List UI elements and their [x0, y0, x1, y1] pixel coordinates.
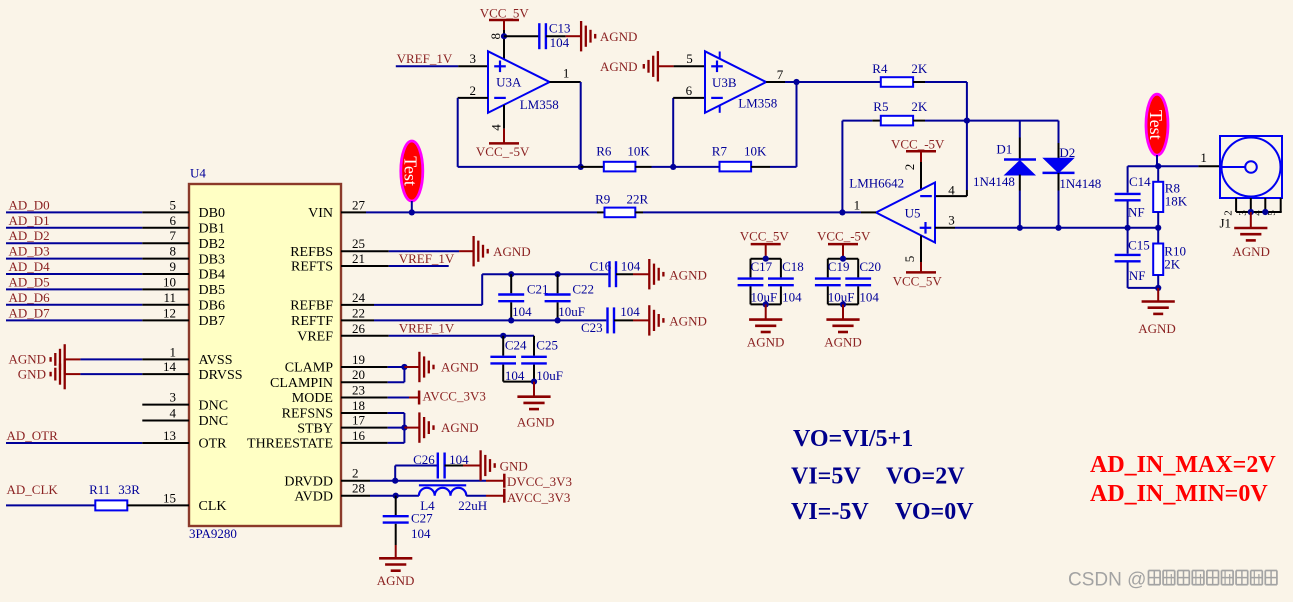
svg-text:C27: C27 — [411, 511, 433, 526]
capacitors C17 C18 decoupling VCC_5V — [738, 229, 804, 350]
svg-text:104: 104 — [782, 289, 802, 304]
svg-text:REFTF: REFTF — [291, 314, 333, 329]
svg-text:1: 1 — [1200, 150, 1207, 165]
svg-text:3: 3 — [1237, 210, 1249, 216]
svg-text:R6: R6 — [596, 143, 612, 158]
wire AD_D2 to pin 7 — [6, 242, 189, 244]
svg-text:AGND: AGND — [1138, 321, 1176, 336]
wire stub pin 3 DNC — [142, 404, 189, 406]
svg-text:10uF: 10uF — [558, 304, 585, 319]
IC U4 part number 3PA9280 — [189, 526, 237, 541]
svg-text:STBY: STBY — [297, 421, 333, 436]
wire C15 top stub — [1127, 228, 1129, 254]
wire pin 28 AVDD — [341, 495, 419, 497]
svg-text:3: 3 — [170, 390, 177, 405]
ground AGND below C27 — [377, 558, 415, 588]
wire C14 top stub — [1127, 166, 1129, 193]
svg-text:7: 7 — [170, 228, 177, 243]
node R10/C15 bottom junction — [1155, 285, 1161, 291]
svg-text:DB2: DB2 — [199, 237, 225, 252]
svg-text:104: 104 — [620, 304, 640, 319]
svg-text:33R: 33R — [118, 482, 140, 497]
svg-text:R7: R7 — [712, 143, 728, 158]
svg-text:AVCC_3V3: AVCC_3V3 — [507, 490, 570, 505]
wire U3A output — [550, 82, 581, 167]
IC U4 designator — [190, 166, 206, 181]
ground AGND at C13 — [581, 21, 637, 51]
capacitor C15 NF — [1115, 238, 1150, 283]
wire AD_OTR to pin 13 — [6, 442, 189, 444]
svg-text:AD_D2: AD_D2 — [9, 228, 50, 243]
wire U3A feedback loop — [458, 98, 581, 167]
node C24 top junction — [500, 333, 506, 339]
svg-text:AGND: AGND — [747, 334, 785, 349]
power AVCC_3V3 at pin 23 — [419, 389, 486, 405]
net label AD_D7 — [9, 305, 51, 320]
node R6/R7 junction — [670, 164, 676, 170]
svg-text:1: 1 — [170, 344, 177, 359]
net label AD_D3 — [9, 244, 50, 259]
svg-text:AD_CLK: AD_CLK — [7, 482, 59, 497]
wire AD_D1 to pin 6 — [6, 227, 189, 229]
svg-text:5: 5 — [686, 51, 693, 66]
svg-text:11: 11 — [163, 290, 176, 305]
node pin28/C27 junction — [393, 493, 399, 499]
node R4/R5/diode-rail junction — [964, 118, 970, 124]
svg-text:C19: C19 — [828, 259, 850, 274]
svg-text:1N4148: 1N4148 — [1059, 176, 1101, 191]
op-amp U3B LM358 — [705, 51, 777, 113]
svg-text:U5: U5 — [905, 205, 921, 220]
pin number 7 — [777, 67, 784, 82]
svg-text:8: 8 — [170, 244, 177, 259]
wire C23 to AGND — [614, 319, 649, 321]
svg-text:DB1: DB1 — [199, 222, 225, 237]
wire pins 18 17 16 REFSNS STBY THREESTATE — [341, 413, 404, 443]
svg-text:6: 6 — [686, 83, 693, 98]
svg-text:10uF: 10uF — [751, 289, 778, 304]
net label VREF_1V at U3A pin 3 — [397, 51, 453, 66]
op-amp U5 LMH6642 — [849, 175, 935, 242]
wire AD_D7 to pin 12 — [6, 319, 189, 321]
svg-text:17: 17 — [352, 413, 366, 428]
wire R11 to pin 15 CLK — [127, 504, 189, 506]
wire pin 22 REFTF rail — [341, 319, 606, 321]
svg-text:14: 14 — [163, 359, 177, 374]
svg-text:DB3: DB3 — [199, 252, 225, 267]
svg-text:VO=VI/5+1: VO=VI/5+1 — [793, 426, 913, 452]
svg-text:C24: C24 — [505, 337, 527, 352]
svg-text:DNC: DNC — [199, 414, 229, 429]
svg-text:7: 7 — [777, 67, 784, 82]
node pin2/C26 junction — [392, 478, 398, 484]
wire C13 to AGND — [546, 35, 581, 37]
node U3A feedback junction — [578, 164, 584, 170]
wire VCC_5V to U3A pin 8 — [503, 30, 505, 60]
node C22 bottom junction — [555, 317, 561, 323]
svg-text:3: 3 — [948, 213, 955, 228]
capacitor C25 10uF — [521, 336, 563, 383]
svg-text:26: 26 — [352, 321, 366, 336]
node D2 bottom junction — [1055, 225, 1061, 231]
node C14 bottom junction — [1125, 225, 1131, 231]
svg-text:AD_D7: AD_D7 — [9, 305, 51, 320]
svg-text:DRVDD: DRVDD — [284, 474, 333, 489]
node R8 bottom junction — [1155, 225, 1161, 231]
pin number 3 of U5 — [948, 213, 955, 228]
note AD_IN_MIN — [1090, 481, 1268, 507]
resistor R4 2K — [872, 61, 928, 87]
node testpoint junction on VIN — [409, 209, 415, 215]
wire pin 23 MODE to AVCC_3V3 — [341, 397, 419, 399]
node C21 top junction — [508, 271, 514, 277]
svg-text:2: 2 — [902, 164, 917, 171]
svg-text:R4: R4 — [872, 61, 888, 76]
svg-text:AGND: AGND — [824, 334, 862, 349]
wire to AGND at pins 17/16 — [404, 427, 419, 429]
svg-text:8: 8 — [488, 33, 503, 40]
node C25 bottom junction — [531, 379, 537, 385]
svg-text:C20: C20 — [859, 259, 881, 274]
power VCC_-5V above U5 — [891, 137, 945, 163]
wire AD_D6 to pin 11 — [6, 304, 189, 306]
svg-text:25: 25 — [352, 236, 365, 251]
wire AGND to pin 1 — [65, 358, 189, 360]
svg-text:VO=0V: VO=0V — [895, 499, 974, 525]
capacitor C21 104 — [498, 274, 548, 320]
node pins 19/20 junction — [401, 364, 407, 370]
svg-text:1: 1 — [563, 66, 570, 81]
svg-text:21: 21 — [352, 251, 365, 266]
svg-text:R9: R9 — [595, 192, 610, 207]
svg-text:DNC: DNC — [199, 398, 229, 413]
svg-text:C14: C14 — [1129, 174, 1151, 189]
net label VREF_1V at pin 21 — [399, 251, 455, 266]
svg-text:DRVSS: DRVSS — [199, 368, 243, 383]
node VCC/C13 junction — [501, 33, 507, 39]
wire VREF_1V to pin 3 — [396, 65, 488, 67]
svg-text:VREF_1V: VREF_1V — [397, 51, 453, 66]
svg-text:DVCC_3V3: DVCC_3V3 — [507, 474, 572, 489]
wire pin 26 VREF — [341, 335, 534, 337]
svg-text:2K: 2K — [911, 99, 928, 114]
node U3B output junction — [793, 79, 799, 85]
svg-text:23: 23 — [352, 383, 365, 398]
wire U3A inverting input — [458, 97, 488, 99]
svg-text:NF: NF — [1129, 268, 1146, 283]
wire C27 to AGND — [395, 524, 397, 558]
ground AGND at C16 — [649, 259, 707, 289]
wire C14 bottom stub — [1127, 202, 1129, 228]
svg-text:CSDN @: CSDN @ — [1068, 570, 1146, 591]
svg-text:16: 16 — [352, 428, 366, 443]
node C22 top junction — [555, 271, 561, 277]
wire pin 25 REFBS to AGND — [341, 250, 474, 252]
wire junction to C13 — [504, 35, 539, 37]
svg-text:VCC_-5V: VCC_-5V — [476, 144, 530, 159]
wire D2 bottom stub — [1058, 173, 1060, 228]
pin number 8 rotated — [488, 33, 503, 40]
svg-text:104: 104 — [621, 259, 641, 274]
ground AGND below J1 — [1232, 212, 1270, 259]
svg-text:AGND: AGND — [600, 29, 638, 44]
svg-text:VI=-5V: VI=-5V — [791, 499, 869, 525]
svg-text:15: 15 — [163, 490, 176, 505]
wire U3B output — [766, 81, 881, 83]
pin number 1 of J1 — [1200, 150, 1207, 165]
capacitor C14 NF — [1115, 174, 1152, 220]
node U5 output junction — [839, 209, 845, 215]
svg-text:3: 3 — [470, 51, 477, 66]
svg-text:REFBS: REFBS — [290, 245, 333, 260]
svg-text:C23: C23 — [581, 320, 603, 335]
svg-text:LM358: LM358 — [738, 96, 777, 111]
net label AD_D2 — [9, 228, 50, 243]
svg-text:3PA9280: 3PA9280 — [189, 526, 237, 541]
svg-text:104: 104 — [859, 289, 879, 304]
svg-text:Test: Test — [1146, 110, 1166, 140]
svg-text:22R: 22R — [627, 192, 649, 207]
wire pin 21 REFTS — [341, 265, 449, 267]
svg-text:VREF_1V: VREF_1V — [399, 321, 455, 336]
wire node up to U3B pin 6 — [673, 98, 705, 167]
wire C16 to AGND — [616, 273, 649, 275]
svg-text:VCC_-5V: VCC_-5V — [817, 229, 871, 244]
wire AD_D4 to pin 9 — [6, 273, 189, 275]
svg-text:2: 2 — [470, 83, 477, 98]
svg-text:VREF_1V: VREF_1V — [399, 251, 455, 266]
wire L4 to AVCC_3V3 — [466, 495, 504, 497]
wire C15 bottom stub — [1128, 263, 1159, 288]
svg-text:22uH: 22uH — [458, 498, 487, 513]
power DVCC_3V3 at pin 2 — [504, 474, 572, 490]
svg-text:AGND: AGND — [377, 573, 415, 588]
svg-text:4: 4 — [948, 183, 955, 198]
svg-text:Test: Test — [401, 156, 421, 186]
pin number 5 rotated — [902, 256, 917, 263]
net label AD_OTR — [7, 428, 59, 443]
wire VCC_-5V to U5 pin 2 — [920, 162, 922, 191]
svg-text:10uF: 10uF — [828, 289, 855, 304]
svg-text:OTR: OTR — [199, 437, 228, 452]
wire stub pin 4 DNC — [142, 420, 189, 422]
svg-text:C25: C25 — [536, 337, 558, 352]
wire pin 2 DRVDD — [341, 480, 504, 482]
svg-text:GND: GND — [500, 459, 528, 474]
svg-text:D2: D2 — [1059, 145, 1075, 160]
svg-text:12: 12 — [163, 305, 176, 320]
svg-text:U4: U4 — [190, 166, 206, 181]
wire R5 left leg — [842, 121, 880, 213]
testpoint Test on VIN — [401, 141, 423, 212]
svg-text:AD_IN_MIN=0V: AD_IN_MIN=0V — [1090, 481, 1268, 507]
wire D1 top stub — [1019, 121, 1021, 160]
wire C27 branch down — [395, 496, 397, 515]
svg-text:104: 104 — [512, 304, 532, 319]
svg-text:REFBF: REFBF — [290, 299, 333, 314]
wire R10 top stub — [1157, 228, 1159, 244]
svg-text:4: 4 — [489, 124, 504, 131]
net label AD_D4 — [9, 259, 51, 274]
capacitor C13 104 — [539, 21, 570, 50]
wire AGND to pin 5 — [658, 65, 705, 67]
pin number 1 of U3A — [563, 66, 570, 81]
svg-text:C17: C17 — [751, 259, 773, 274]
svg-text:VIN: VIN — [308, 206, 333, 221]
capacitor C27 104 — [383, 511, 433, 541]
wire GND to pin 14 — [65, 373, 189, 375]
capacitor C24 104 — [490, 336, 527, 383]
net label AD_D5 — [9, 274, 50, 289]
wire C26 branch up — [395, 466, 438, 481]
IC U4 3PA9280 body — [189, 184, 341, 526]
wire to AGND at pins 19/20 — [404, 366, 419, 368]
svg-text:REFTS: REFTS — [291, 260, 333, 275]
svg-text:AGND: AGND — [441, 420, 479, 435]
wire U5 pin 4 — [935, 195, 967, 197]
svg-text:6: 6 — [170, 213, 177, 228]
note formula VI=5V — [791, 464, 965, 490]
svg-text:C26: C26 — [413, 452, 435, 467]
resistor R5 2K — [873, 99, 928, 125]
capacitors C19 C20 decoupling VCC_-5V — [815, 229, 881, 350]
power VCC_-5V below U3A — [476, 143, 530, 159]
svg-text:C22: C22 — [572, 281, 594, 296]
svg-text:18K: 18K — [1165, 194, 1188, 209]
J1 pin numbers 2 3 4 5 rotated — [1223, 210, 1279, 216]
svg-text:VCC_5V: VCC_5V — [480, 6, 530, 21]
note formula VO — [793, 426, 913, 452]
svg-text:104: 104 — [411, 526, 431, 541]
node C21 bottom junction — [508, 317, 514, 323]
diode D1 1N4148 — [973, 142, 1036, 189]
wire AD_CLK to R11 — [6, 504, 95, 506]
node D1 bottom junction — [1017, 225, 1023, 231]
note formula VI=-5V — [791, 499, 974, 525]
svg-text:LM358: LM358 — [520, 97, 559, 112]
op-amp U3A LM358 — [488, 51, 559, 113]
net label AD_CLK — [7, 482, 59, 497]
ground AGND at pins 17/16 — [419, 412, 478, 442]
svg-text:REFSNS: REFSNS — [282, 407, 333, 422]
svg-text:DB6: DB6 — [199, 299, 225, 314]
ground AGND at pin 25 — [474, 236, 531, 266]
node pins 17/16 junction — [401, 425, 407, 431]
pin number 1 of U5 — [854, 198, 861, 213]
svg-text:9: 9 — [170, 259, 177, 274]
svg-text:AGND: AGND — [441, 360, 479, 375]
svg-text:27: 27 — [352, 197, 366, 212]
resistor R7 10K — [712, 143, 767, 171]
svg-text:10K: 10K — [627, 143, 650, 158]
ground AGND at U3B pin 5 — [600, 51, 658, 81]
svg-text:AVDD: AVDD — [294, 489, 333, 504]
pin number 2 — [470, 83, 477, 98]
J1 designator — [1220, 216, 1232, 231]
connector J1 jack — [1220, 136, 1282, 198]
net label AD_D6 — [9, 290, 51, 305]
wire D2 top stub — [1058, 121, 1060, 159]
svg-text:10K: 10K — [744, 143, 767, 158]
pin number 5 — [686, 51, 693, 66]
svg-text:AGND: AGND — [9, 352, 47, 367]
svg-text:1: 1 — [854, 198, 861, 213]
svg-text:NF: NF — [1128, 205, 1145, 220]
svg-text:2: 2 — [352, 466, 359, 481]
svg-text:U3B: U3B — [712, 75, 737, 90]
resistor R8 18K — [1153, 181, 1188, 212]
wire R4 to vertical node — [913, 82, 967, 196]
wire U3A pin 4 to VCC_-5V — [503, 105, 505, 143]
svg-text:4: 4 — [170, 406, 177, 421]
pin number 6 — [686, 83, 693, 98]
svg-text:THREESTATE: THREESTATE — [247, 437, 333, 452]
svg-text:20: 20 — [352, 367, 365, 382]
svg-text:CLAMP: CLAMP — [285, 361, 333, 376]
ground AGND at pins 19/20 — [419, 352, 478, 382]
J1 ground pins — [1236, 198, 1282, 212]
svg-text:10uF: 10uF — [536, 368, 563, 383]
svg-text:VCC_-5V: VCC_-5V — [891, 137, 945, 152]
svg-text:AD_D6: AD_D6 — [9, 290, 51, 305]
wire pins 19 20 CLAMP CLAMPIN — [341, 367, 404, 382]
wire AD_D3 to pin 8 — [6, 258, 189, 260]
svg-text:VO=2V: VO=2V — [886, 464, 965, 490]
wire output node horizontal — [1128, 165, 1159, 167]
svg-text:AD_D1: AD_D1 — [9, 213, 50, 228]
IC U4 pin names — [199, 206, 334, 514]
svg-text:VREF: VREF — [297, 330, 333, 345]
svg-text:J1: J1 — [1220, 216, 1232, 231]
svg-text:AGND: AGND — [1232, 244, 1270, 259]
wire R8 bottom stub — [1157, 212, 1159, 228]
svg-text:C16: C16 — [590, 259, 612, 274]
resistor R6 10K — [596, 143, 650, 171]
wire C24/C25 bottom join — [503, 381, 534, 383]
svg-text:R11: R11 — [89, 482, 110, 497]
svg-text:VCC_5V: VCC_5V — [740, 229, 790, 244]
wire AD_D5 to pin 10 — [6, 288, 189, 290]
svg-text:22: 22 — [352, 305, 365, 320]
svg-text:CLAMPIN: CLAMPIN — [270, 376, 333, 391]
svg-text:MODE: MODE — [292, 391, 333, 406]
wire junction to R6 — [581, 166, 604, 168]
svg-text:C18: C18 — [782, 259, 804, 274]
note AD_IN_MAX — [1090, 452, 1276, 478]
capacitor C22 10uF — [545, 274, 594, 320]
wire R8 top stub — [1157, 166, 1159, 182]
svg-text:AD_D4: AD_D4 — [9, 259, 51, 274]
svg-text:24: 24 — [352, 290, 366, 305]
diode D2 1N4148 — [1043, 145, 1102, 191]
svg-text:DB0: DB0 — [199, 206, 225, 221]
svg-text:AD_OTR: AD_OTR — [7, 428, 59, 443]
svg-text:U3A: U3A — [496, 74, 522, 89]
svg-text:2K: 2K — [1164, 257, 1181, 272]
power AVCC_3V3 at pin 28 — [504, 489, 570, 505]
svg-text:1N4148: 1N4148 — [973, 174, 1015, 189]
ground GND at pin 14 DRVSS — [18, 359, 65, 389]
wire AD_D0 to pin 5 — [6, 211, 189, 213]
wire pin 27 VIN — [341, 211, 605, 213]
net label AD_D0 — [9, 197, 50, 212]
watermark CSDN — [1068, 570, 1277, 591]
pin number 3 — [470, 51, 477, 66]
pin number 4 rotated — [489, 124, 504, 131]
svg-text:5: 5 — [170, 197, 177, 212]
ground AGND at C23 — [649, 305, 707, 335]
wire U5 pin 5 to VCC_5V — [920, 236, 922, 273]
